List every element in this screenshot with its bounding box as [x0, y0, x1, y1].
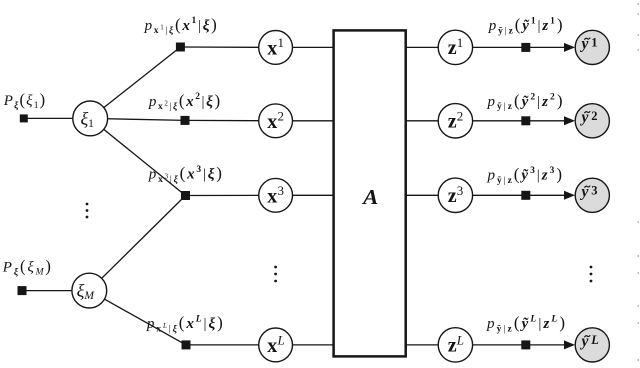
variable node z3: [438, 178, 472, 212]
svg-text:x: x: [267, 185, 277, 207]
wire: xi to factor square row 2: [90, 118, 185, 120]
variable node x3: [259, 178, 293, 212]
svg-text:1: 1: [278, 35, 285, 50]
vertical dots between xi1 and xiM: [86, 203, 89, 206]
wire: block A to node zL: [406, 344, 456, 346]
factor square p(y~3|z3): [521, 191, 530, 200]
svg-text:2: 2: [457, 109, 464, 124]
svg-text:z: z: [448, 335, 457, 357]
svg-text:1: 1: [591, 35, 597, 49]
wire: block A to node z1: [406, 46, 456, 48]
variable node xi1: [73, 101, 108, 136]
svg-text:z: z: [448, 37, 457, 59]
observed node y~1 (shaded): [575, 30, 609, 64]
svg-text:z: z: [448, 185, 457, 207]
arrowhead into node y~1: [564, 43, 575, 52]
variable node x2: [259, 104, 293, 138]
svg-text:Pξ(ξ1): Pξ(ξ1): [3, 90, 45, 111]
vertical dots in x column: [274, 266, 277, 269]
arrowhead into node y~3: [564, 191, 575, 200]
factor square p(x2|xi): [181, 116, 190, 125]
factor square p(y~2|z2): [521, 116, 530, 125]
svg-text:L: L: [456, 333, 464, 348]
svg-text:3: 3: [591, 183, 597, 197]
svg-text:2: 2: [278, 109, 285, 124]
svg-text:L: L: [277, 333, 285, 348]
faint page-edge text specks: [638, 3, 640, 5]
wire: factor square to node xL: [186, 344, 276, 346]
wire: node xL to block A: [276, 344, 334, 346]
svg-text:3: 3: [457, 183, 464, 198]
svg-text:A: A: [361, 185, 378, 209]
variable node z2: [438, 104, 472, 138]
factor square P(xi1): [20, 114, 28, 122]
factor square p(y~L|zL): [521, 340, 530, 349]
svg-text:x: x: [267, 335, 277, 357]
factor square p(y~1|z1): [521, 43, 530, 52]
svg-text:z: z: [448, 110, 457, 132]
factor square P(xiM): [18, 286, 27, 295]
wire: input square to node xi1: [24, 117, 90, 119]
wire: factor square to node x1: [180, 46, 275, 48]
svg-text:x: x: [267, 38, 277, 60]
wire: factor square to node x3: [186, 194, 276, 196]
variable node x1: [259, 31, 293, 65]
wire: block A to node z2: [406, 120, 456, 122]
wire: factor square to node x2: [185, 119, 276, 121]
factor square p(xL|xi): [182, 340, 191, 349]
wire: node z1 to arrowhead y~1: [455, 46, 566, 48]
arrowhead into node y~2: [564, 116, 575, 125]
wire: input square to node xiM: [22, 290, 89, 292]
svg-text:3: 3: [278, 183, 285, 198]
wire: xi to factor square row 3: [90, 118, 185, 195]
arrowhead into node y~L: [564, 340, 575, 349]
wire: node z2 to arrowhead y~2: [455, 120, 566, 122]
svg-text:2: 2: [591, 109, 597, 123]
wire: node z3 to arrowhead y~3: [455, 194, 566, 196]
wire: node x1 to block A: [276, 46, 334, 48]
variable node z1: [438, 30, 472, 64]
wire: node zL to arrowhead y~L: [455, 344, 566, 346]
variable node zL: [438, 328, 472, 362]
wire: node x3 to block A: [276, 194, 334, 196]
observed node y~3 (shaded): [575, 178, 609, 212]
block A (mixing matrix): [334, 30, 406, 356]
observed node y~2 (shaded): [575, 104, 609, 138]
wire: block A to node z3: [406, 194, 456, 196]
vertical dots in y~ column: [590, 266, 593, 269]
wire: node x2 to block A: [276, 120, 334, 122]
svg-text:1: 1: [457, 35, 464, 50]
variable node xL: [259, 328, 293, 362]
observed node y~L (shaded): [575, 328, 609, 362]
wire: xiM to factor square row 3: [89, 196, 185, 291]
variable node xiM: [72, 273, 107, 308]
svg-text:L: L: [590, 333, 599, 347]
factor square p(x3|xi): [181, 191, 190, 200]
svg-text:x: x: [267, 111, 277, 133]
wire: xi to factor square row 1: [90, 47, 180, 118]
factor square p(x1|xi): [176, 43, 185, 52]
wire: xi to factor square row L: [89, 291, 186, 345]
